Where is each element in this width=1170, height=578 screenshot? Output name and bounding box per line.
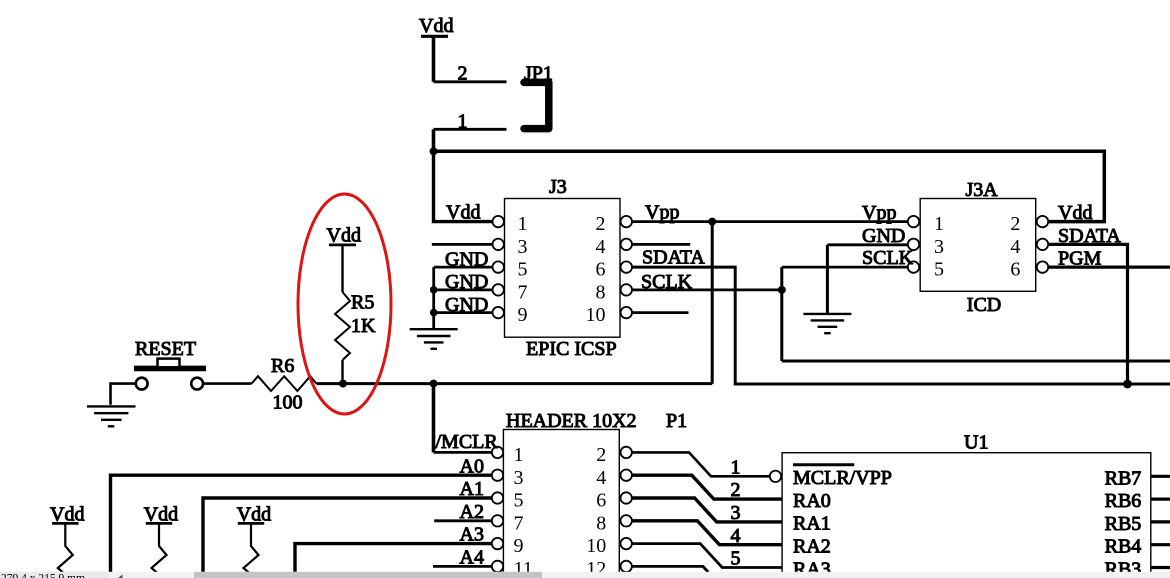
- wire RB5: [1151, 520, 1170, 523]
- wire R5 to MCLR net: [341, 360, 343, 384]
- svg-text:Vpp: Vpp: [645, 201, 679, 223]
- pin circles J3A left: [908, 216, 919, 273]
- wire GND down: [826, 245, 829, 314]
- wire RB3: [1151, 566, 1170, 569]
- wire Vpp net J3 pin2 to J3A pin1: [632, 220, 908, 223]
- wire Vdd down to J3 pin1: [434, 151, 493, 221]
- pin numbers J3A: [934, 213, 1020, 281]
- connector J3: [505, 176, 621, 360]
- wire JP1 pin1 down to Vdd node: [432, 129, 436, 151]
- svg-text:/MCLR: /MCLR: [436, 431, 499, 453]
- wire Vpp down to MCLR wire: [711, 222, 714, 384]
- pin circles J3 right: [621, 216, 632, 318]
- node MCLR junction: [430, 380, 438, 388]
- pin numbers J3: [518, 213, 606, 326]
- pin numbers P1: [514, 444, 607, 578]
- svg-text:2: 2: [731, 479, 741, 501]
- scrollbar thumb: [194, 572, 542, 578]
- wire P1 pin6 to U1 RA1: [632, 498, 782, 522]
- svg-text:10: 10: [586, 535, 606, 557]
- svg-text:6: 6: [596, 259, 606, 281]
- resistor R6: [252, 355, 317, 414]
- ground symbol under J3A: [803, 314, 851, 333]
- IC U1: [782, 432, 1151, 578]
- resistor lead bottom 1: [58, 523, 73, 578]
- jumper JP1: [524, 63, 553, 129]
- wire GND bus J3: [432, 267, 435, 329]
- wire JP1 pin 1 stub: [434, 128, 507, 131]
- svg-text:U1: U1: [964, 432, 988, 454]
- wire J3 pin4 stub: [632, 243, 690, 246]
- svg-text:SDATA: SDATA: [642, 247, 705, 269]
- svg-text:EPIC ICSP: EPIC ICSP: [526, 338, 617, 360]
- svg-text:RA1: RA1: [793, 513, 831, 535]
- wire PGM out right: [1048, 266, 1170, 269]
- svg-text:RA0: RA0: [793, 490, 831, 512]
- node R5 junction: [339, 380, 347, 388]
- wire P1 pin4 to U1 RA0: [632, 475, 782, 499]
- svg-text:1: 1: [518, 213, 528, 235]
- wire P1 pin2 to U1 MCLR: [632, 452, 770, 476]
- wire RESET right to R6: [203, 382, 252, 385]
- svg-text:2: 2: [596, 213, 606, 235]
- wire SDATA net from J3 pin6: [632, 267, 1170, 384]
- wire RB7: [1151, 475, 1170, 478]
- wire Vdd to JP1 pin 2: [432, 36, 436, 82]
- wire MCLR down to P1 pin1: [432, 384, 436, 453]
- svg-text:6: 6: [596, 490, 606, 512]
- overline MCLR: [793, 463, 854, 466]
- wire A0: [111, 475, 492, 572]
- wire SCLK from J3 pin8: [632, 288, 782, 291]
- wire P1 pin8 to U1 RA2: [632, 521, 782, 545]
- svg-text:8: 8: [596, 512, 606, 534]
- status tooltip background: [0, 572, 108, 578]
- svg-text:J3A: J3A: [966, 179, 999, 201]
- svg-text:6: 6: [1010, 259, 1020, 281]
- svg-text:4: 4: [596, 236, 606, 258]
- wire SCLK vertical: [780, 267, 783, 361]
- wire A1: [203, 498, 492, 572]
- power symbol Vdd (top, JP1 pin 2): [419, 15, 453, 37]
- wire J3 pin7: [434, 288, 493, 291]
- svg-text:RA2: RA2: [793, 536, 831, 558]
- wire RB6: [1151, 498, 1170, 501]
- wire Vdd bus top to J3A pin2: [434, 151, 1105, 221]
- wire RB4: [1151, 543, 1170, 546]
- svg-text:Vdd: Vdd: [446, 201, 480, 223]
- pin circles P1 right: [621, 447, 632, 572]
- ground symbol under J3: [410, 329, 458, 349]
- svg-text:3: 3: [518, 236, 528, 258]
- node Vpp junction: [708, 218, 716, 226]
- svg-text:10: 10: [586, 304, 606, 326]
- resistor lead bottom 2: [152, 523, 167, 578]
- svg-text:MCLR/VPP: MCLR/VPP: [793, 467, 892, 489]
- svg-text:Vdd: Vdd: [327, 225, 361, 247]
- node SDATA junction: [1123, 380, 1132, 389]
- svg-text:4: 4: [596, 467, 606, 489]
- wire A4 stub: [433, 565, 492, 568]
- resistor R5: [335, 292, 376, 360]
- svg-text:J3: J3: [549, 176, 567, 198]
- wire SCLK out right: [782, 360, 1170, 363]
- wire P1 pin10 to U1 RA3: [632, 544, 782, 568]
- svg-text:RB7: RB7: [1105, 467, 1142, 489]
- connector J3A: [920, 179, 1035, 316]
- wire A3: [295, 544, 492, 572]
- svg-text:9: 9: [518, 304, 528, 326]
- svg-text:279.4 x 215.9 mm: 279.4 x 215.9 mm: [1, 572, 85, 578]
- svg-text:2: 2: [1010, 213, 1020, 235]
- node SCLK junction: [778, 286, 786, 294]
- wire JP1 pin 2 stub: [434, 80, 507, 83]
- pin circles J3A right: [1037, 216, 1048, 273]
- svg-text:R5: R5: [351, 292, 374, 314]
- pin circle U1 MCLR: [770, 471, 781, 482]
- svg-text:Vdd: Vdd: [1058, 202, 1092, 224]
- svg-text:RB6: RB6: [1105, 490, 1142, 512]
- wire J3 pin9: [434, 311, 493, 314]
- svg-text:1: 1: [731, 456, 741, 478]
- wire Vdd to R5: [341, 245, 343, 292]
- svg-text:3: 3: [731, 502, 741, 524]
- scrollbar track: [0, 572, 1170, 578]
- svg-text:HEADER 10X2: HEADER 10X2: [506, 410, 637, 432]
- wire MCLR net horizontal: [317, 382, 713, 385]
- power symbol Vdd (bottom 1): [50, 504, 84, 526]
- svg-text:5: 5: [518, 259, 528, 281]
- svg-text:7: 7: [518, 281, 528, 303]
- svg-text:P1: P1: [666, 410, 687, 432]
- connector P1 HEADER 10X2: [503, 410, 687, 578]
- pin circles P1 left: [492, 447, 503, 572]
- wire P1 pin12 partial: [632, 566, 708, 572]
- svg-text:4: 4: [1010, 236, 1020, 258]
- svg-text:2: 2: [596, 444, 606, 466]
- wire J3A pin4 SDATA down to SDATA net: [1048, 244, 1127, 384]
- svg-text:3: 3: [514, 467, 524, 489]
- node GND junction pin7: [430, 286, 438, 294]
- svg-text:RB5: RB5: [1105, 513, 1142, 535]
- svg-text:Vpp: Vpp: [862, 202, 896, 224]
- wire J3A pin3 GND: [827, 243, 907, 246]
- wire J3 pin10 stub: [632, 311, 689, 314]
- svg-text:100: 100: [273, 392, 303, 414]
- svg-text:5: 5: [514, 490, 524, 512]
- svg-text:8: 8: [596, 281, 606, 303]
- svg-text:RB4: RB4: [1105, 536, 1142, 558]
- wire RESET left to ground: [111, 384, 136, 405]
- svg-text:1: 1: [514, 444, 524, 466]
- wire A2 stub: [434, 519, 492, 522]
- svg-text:ICD: ICD: [967, 294, 1001, 316]
- svg-text:5: 5: [731, 548, 741, 570]
- pin circles J3 left: [493, 216, 504, 318]
- wire SCLK to J3A pin5: [782, 266, 908, 269]
- wire J3 pin5: [434, 266, 493, 269]
- svg-text:R6: R6: [271, 355, 294, 377]
- power symbol Vdd (bottom 3): [237, 504, 271, 526]
- svg-text:1: 1: [934, 213, 944, 235]
- wire J3 pin3 stub: [432, 243, 493, 246]
- svg-text:4: 4: [731, 525, 741, 547]
- pushbutton RESET: [134, 338, 206, 390]
- power symbol Vdd (R5): [327, 225, 361, 247]
- highlight ellipse (red): [298, 194, 391, 414]
- svg-text:3: 3: [934, 236, 944, 258]
- svg-text:9: 9: [514, 535, 524, 557]
- svg-text:5: 5: [934, 259, 944, 281]
- node Vdd junction: [430, 147, 438, 155]
- resistor lead bottom 3: [244, 523, 259, 578]
- svg-text:1K: 1K: [351, 315, 376, 337]
- power symbol Vdd (bottom 2): [144, 504, 178, 526]
- ground symbol under RESET: [87, 406, 136, 426]
- svg-text:Vdd: Vdd: [419, 15, 453, 37]
- scrollbar left arrow tip: [116, 574, 123, 578]
- node GND junction pin9: [430, 309, 438, 317]
- svg-text:SCLK: SCLK: [862, 247, 914, 269]
- svg-text:RESET: RESET: [135, 338, 196, 360]
- svg-text:7: 7: [514, 512, 524, 534]
